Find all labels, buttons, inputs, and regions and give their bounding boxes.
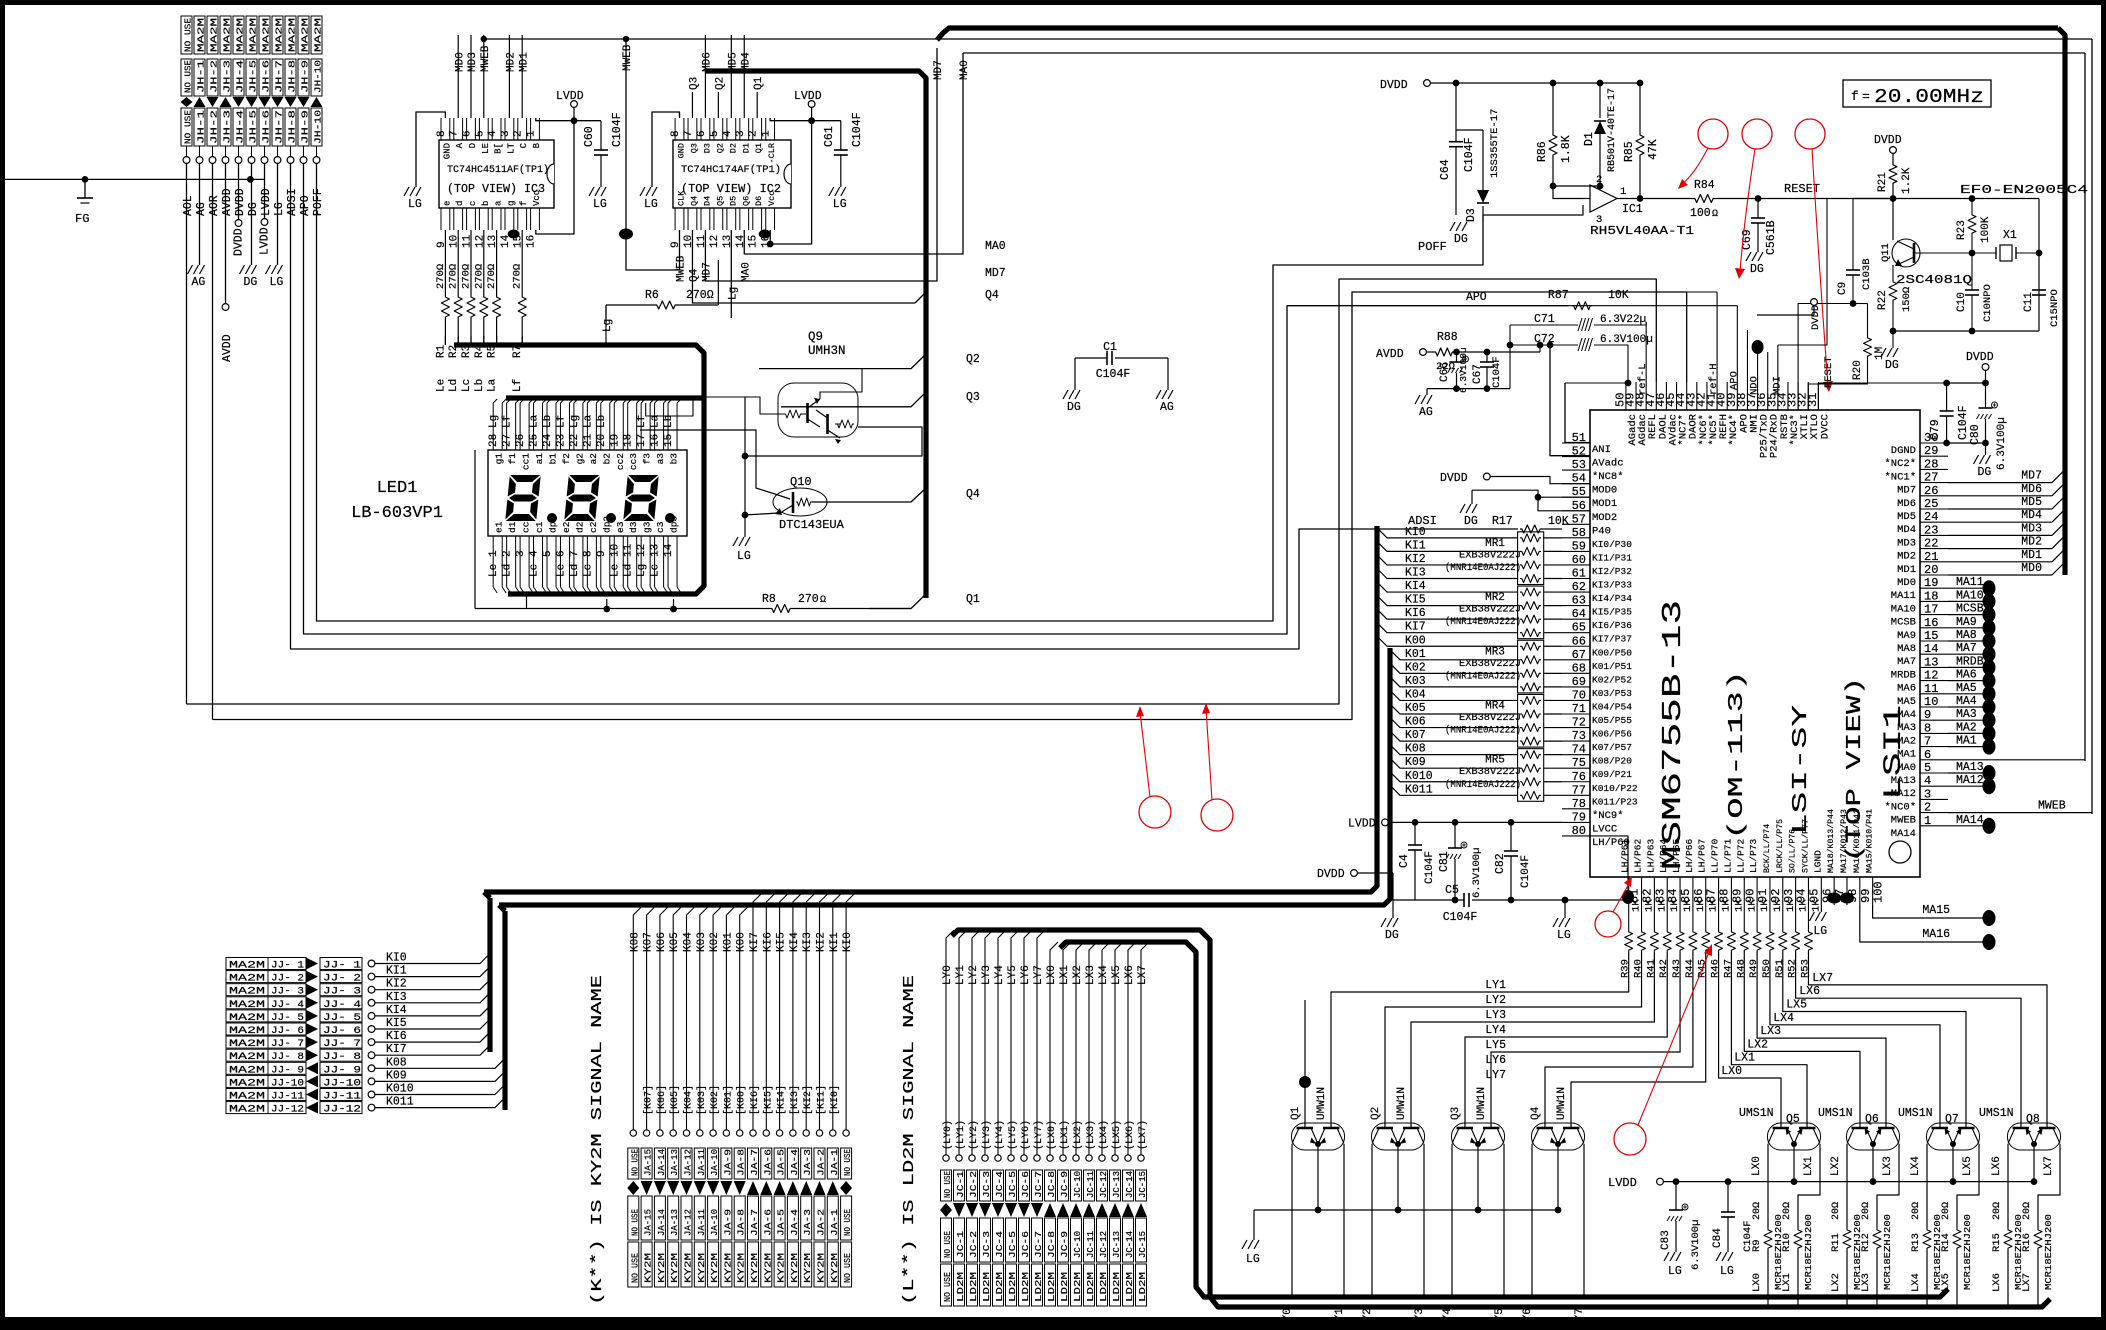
svg-text:LD2M: LD2M	[1125, 1272, 1135, 1302]
wire DG	[251, 163, 253, 265]
ground LG (pin96)	[1820, 905, 1822, 912]
svg-text:MD7: MD7	[2021, 470, 2042, 483]
svg-text:MD0: MD0	[454, 52, 466, 72]
svg-text:LX7: LX7	[1812, 972, 1833, 985]
svg-text:DVDD: DVDD	[1440, 472, 1468, 485]
svg-text:K02/P52: K02/P52	[1592, 674, 1632, 685]
wire MA2	[1948, 732, 1984, 734]
svg-text:JH-5: JH-5	[248, 60, 259, 93]
LSI1 pin 79 (LVCC)	[1562, 821, 1590, 823]
svg-text:JC-3: JC-3	[982, 1171, 992, 1198]
svg-text:SO/LL/P76: SO/LL/P76	[1788, 829, 1798, 873]
svg-text:Q7: Q7	[1945, 1113, 1959, 1126]
svg-text:LY6: LY6	[1485, 1054, 1506, 1067]
svg-text:C61: C61	[823, 126, 836, 147]
wire cc line left	[474, 450, 476, 609]
svg-text:28: 28	[1924, 457, 1938, 471]
svg-text:12: 12	[1924, 669, 1938, 683]
svg-text:R40: R40	[1633, 959, 1645, 978]
IC3 pin 1 (B)	[530, 118, 532, 140]
svg-text:270Ω: 270Ω	[486, 264, 498, 289]
svg-text:Lb: Lb	[542, 415, 554, 428]
svg-text:Lg: Lg	[636, 564, 648, 577]
wire Q4 emitter	[1557, 1144, 1559, 1210]
svg-text:LH/P61: LH/P61	[1620, 838, 1631, 873]
LSI1 pin 16 (MA9)	[1920, 627, 1948, 629]
svg-text:LVDD: LVDD	[1348, 817, 1376, 830]
wire XTLO net	[1808, 358, 1867, 410]
svg-text:JC-6: JC-6	[1021, 1171, 1031, 1198]
svg-text:6: 6	[462, 130, 474, 137]
resistor R7 270ohm (Lf)	[521, 230, 523, 295]
svg-text:JC-12: JC-12	[1099, 1231, 1109, 1258]
ground LG (Q emitters)	[1242, 1240, 1247, 1249]
svg-text:MOD2: MOD2	[1592, 512, 1617, 524]
svg-text:LG: LG	[644, 198, 658, 211]
svg-text:MRDB: MRDB	[1956, 655, 1984, 668]
wire osc right vertical	[2038, 199, 2040, 332]
svg-text:LY0: LY0	[942, 965, 954, 985]
svg-text:1K: 1K	[1772, 899, 1784, 912]
svg-text:KI0/P30: KI0/P30	[1592, 539, 1632, 550]
capacitor C11 C15NPO	[2032, 289, 2046, 291]
wire MD2 (IC3 top)	[508, 35, 510, 118]
svg-text:KY2M: KY2M	[710, 1253, 720, 1283]
wire MA16	[1860, 905, 1984, 942]
wire LVDD	[264, 163, 266, 218]
wire K05 row	[1390, 704, 1518, 714]
svg-text:d3: d3	[628, 521, 639, 533]
svg-text:MA5: MA5	[1956, 682, 1977, 695]
svg-text:KI2: KI2	[386, 978, 407, 991]
svg-text:12: 12	[709, 235, 721, 248]
svg-text:K01/P51: K01/P51	[1592, 661, 1632, 672]
resistor network MR3 EXB38V222J	[1518, 640, 1544, 693]
IC2 pin 6 (D3)	[700, 118, 702, 140]
svg-text:(LY0): (LY0)	[942, 1120, 954, 1150]
svg-text:MD7: MD7	[985, 267, 1006, 280]
wire Q11 base to X1	[1914, 252, 1996, 254]
svg-text:K01: K01	[1405, 648, 1426, 661]
connector pin JH-5	[246, 16, 257, 54]
svg-text:DG: DG	[1750, 263, 1764, 276]
svg-text:LED1: LED1	[377, 479, 418, 498]
svg-text:MA2M: MA2M	[235, 18, 246, 52]
svg-text:Q3: Q3	[689, 143, 699, 153]
transistor Q1 UMW1N	[1292, 1123, 1345, 1150]
svg-text:KY2M: KY2M	[763, 1253, 773, 1283]
transistor Q10 DTC143EUA	[773, 488, 827, 516]
svg-text:1K: 1K	[1644, 899, 1656, 912]
svg-text:KY2M: KY2M	[657, 1253, 667, 1283]
svg-text:LX2: LX2	[1830, 1156, 1842, 1176]
LED pin 4 (c1)	[533, 536, 535, 587]
svg-text:-CLR: -CLR	[767, 143, 777, 163]
wire MD7 top to MD bus	[481, 36, 487, 42]
svg-text:8: 8	[582, 550, 594, 557]
svg-text:23: 23	[1924, 523, 1938, 537]
LSI1 pin 23 (MD3)	[1920, 534, 1948, 536]
svg-text:MA13: MA13	[1956, 761, 1984, 774]
svg-text:Q6: Q6	[741, 196, 751, 206]
ground DG (R22)	[1892, 331, 1894, 348]
svg-text:1: 1	[761, 130, 773, 137]
wire MA12	[1948, 785, 1984, 787]
svg-text:4: 4	[1924, 774, 1931, 788]
LSI1 pin 31 (DVCC)	[1817, 382, 1819, 410]
svg-text:MA4: MA4	[1956, 695, 1977, 708]
LSI1 pin 88 (LL/P70)	[1718, 877, 1720, 905]
svg-text:JA-15: JA-15	[644, 1209, 654, 1236]
svg-text:(LX5): (LX5)	[1111, 1120, 1123, 1150]
svg-text:K08: K08	[386, 1056, 407, 1069]
svg-text:*NC8*: *NC8*	[1592, 471, 1624, 483]
svg-text:LX1: LX1	[1781, 1273, 1793, 1292]
svg-text:UMS1N: UMS1N	[1898, 1107, 1933, 1120]
LED pin 13 (c3)	[654, 536, 656, 587]
connector LD2M col JC-9	[1063, 942, 1071, 1158]
svg-text:14: 14	[735, 234, 747, 248]
connector LD2M col JC-10	[1076, 942, 1084, 1158]
svg-text:JA-11: JA-11	[697, 1209, 707, 1236]
wire Q10 base from LED	[640, 430, 778, 495]
svg-text:R17: R17	[1492, 515, 1513, 528]
svg-text:MA18/K013/P44: MA18/K013/P44	[1826, 809, 1836, 873]
svg-text:K00: K00	[736, 932, 748, 952]
svg-text:LG: LG	[737, 550, 751, 563]
svg-text:JA-14: JA-14	[657, 1209, 667, 1236]
svg-text:JC-2: JC-2	[969, 1231, 979, 1258]
svg-text:20Ω: 20Ω	[1861, 1202, 1872, 1220]
wire Q6 emitter	[1872, 1144, 1874, 1182]
svg-text:R20: R20	[1852, 360, 1864, 380]
svg-text:JA-3: JA-3	[803, 1209, 813, 1236]
LED pin 12 (g3)	[640, 536, 642, 587]
wire LY0 drop	[1291, 1144, 1293, 1297]
svg-text:20Ω: 20Ω	[2022, 1202, 2033, 1220]
svg-text:KI2: KI2	[1405, 553, 1426, 566]
wire LX7 to R16	[2038, 1144, 2060, 1228]
bus Q3 tap	[781, 392, 926, 407]
connector LD2M col JC-6	[1024, 930, 1032, 1158]
svg-text:LD2M: LD2M	[969, 1272, 979, 1302]
svg-text:[KI4]: [KI4]	[776, 1085, 788, 1115]
svg-text:10K: 10K	[1608, 289, 1629, 302]
svg-text:Vcc: Vcc	[767, 191, 777, 206]
wire DVDD	[238, 163, 240, 219]
svg-text:Ω: Ω	[1712, 209, 1718, 220]
wire DGND pin30	[1948, 442, 1986, 444]
IC3 pin 6 (D)	[466, 118, 468, 140]
svg-text:R12: R12	[1860, 1233, 1872, 1252]
svg-text:LH/P66: LH/P66	[1684, 838, 1695, 873]
svg-text:LD2M: LD2M	[1060, 1272, 1070, 1302]
LSI1 pin 20 (MD0)	[1920, 574, 1948, 576]
LSI1 pin 64 (KI6/P36)	[1562, 618, 1590, 620]
svg-text:KI7: KI7	[386, 1043, 407, 1056]
LSI1 pin 14 (MA7)	[1920, 653, 1948, 655]
svg-text:b: b	[481, 201, 491, 206]
svg-text:Q4: Q4	[1530, 1106, 1542, 1120]
wire LY4	[1465, 952, 1667, 1097]
svg-text:Lb: Lb	[474, 379, 486, 392]
connector LD2M col JC-2	[972, 930, 980, 1158]
svg-text:D: D	[468, 143, 478, 148]
svg-text:R21: R21	[1877, 172, 1889, 192]
svg-text:MA2M: MA2M	[229, 1052, 265, 1063]
svg-text:15: 15	[1924, 629, 1938, 643]
svg-text:K05: K05	[1405, 702, 1426, 715]
svg-text:KI1: KI1	[829, 932, 841, 952]
wire IC2 CLR to LVDD	[770, 118, 841, 121]
svg-text:UMW1N: UMW1N	[1556, 1087, 1568, 1120]
LED pin 25 (a1)	[533, 403, 535, 450]
wire MRDB	[1948, 666, 1984, 668]
svg-text:MA2: MA2	[1956, 721, 1977, 734]
junction	[508, 230, 520, 239]
svg-text:MA12: MA12	[1891, 788, 1916, 800]
svg-text:JC-8: JC-8	[1047, 1231, 1057, 1258]
svg-text:LX1: LX1	[1734, 1052, 1755, 1065]
svg-text:ADSI: ADSI	[286, 188, 299, 216]
LSI1 pin 80 (LH/P60)	[1562, 835, 1590, 837]
connector LD2M col NO USE	[946, 930, 954, 1158]
svg-text:UMW1N: UMW1N	[1396, 1087, 1408, 1120]
svg-text:R13: R13	[1910, 1233, 1922, 1252]
LSI1 pin 61 (KI3/P33)	[1562, 578, 1590, 580]
svg-text:12: 12	[474, 235, 486, 248]
svg-text:LY4: LY4	[1442, 1308, 1454, 1328]
capacitor C67 C104F	[1484, 349, 1491, 356]
LSI1 pin 87 (LH/P67)	[1705, 877, 1707, 905]
svg-text:10: 10	[449, 235, 461, 248]
svg-text:DVDD: DVDD	[234, 188, 247, 216]
wire LX0 to R9	[1767, 1144, 1769, 1228]
svg-text:KY2M: KY2M	[830, 1253, 840, 1283]
LSI1 pin 57 (P40)	[1562, 523, 1590, 525]
svg-text:5: 5	[474, 130, 486, 137]
svg-text:LX5: LX5	[1940, 1273, 1952, 1292]
svg-text:LX5: LX5	[1962, 1156, 1974, 1176]
svg-text:LG: LG	[1813, 925, 1827, 938]
svg-text:Lg: Lg	[569, 415, 581, 428]
svg-text:UMH3N: UMH3N	[808, 344, 846, 358]
wire LX6	[1796, 952, 2021, 1112]
LSI1 pin 35 (RSTB)	[1777, 382, 1779, 410]
svg-text:JC-7: JC-7	[1034, 1231, 1044, 1258]
svg-text:K05: K05	[669, 932, 681, 952]
LED pin 8 (c2)	[586, 536, 588, 587]
svg-text:15: 15	[663, 434, 675, 447]
connector LD2M col JC-3	[985, 930, 993, 1158]
svg-text:JJ- 4: JJ- 4	[323, 1000, 361, 1011]
wire Ld to bus	[457, 341, 459, 345]
svg-text:MD7: MD7	[933, 60, 945, 80]
wire K00 row	[1377, 636, 1518, 646]
ground DG (C80)	[1974, 455, 1979, 464]
connector KY2M col JA-11	[700, 905, 710, 1133]
svg-text:C561B: C561B	[1765, 220, 1778, 255]
svg-text:LX6: LX6	[1124, 965, 1136, 985]
svg-text:K06: K06	[656, 932, 668, 952]
svg-text:MA2M: MA2M	[229, 1013, 265, 1024]
svg-text:22: 22	[1924, 537, 1938, 551]
wire La to bus	[496, 341, 498, 345]
svg-text:K04: K04	[683, 932, 695, 952]
svg-text:1M: 1M	[1874, 347, 1886, 360]
svg-text:LD2M: LD2M	[1099, 1272, 1109, 1302]
svg-text:75: 75	[1572, 756, 1586, 770]
LSI1 pin 48 (REFL)	[1645, 382, 1647, 410]
LED pin 10 (e3)	[613, 536, 615, 587]
wire LX2 to R11	[1846, 1144, 1848, 1228]
svg-text:R16: R16	[2021, 1233, 2033, 1252]
wire Q1 emitter	[1317, 1144, 1319, 1210]
bus (thick) IC2 area	[705, 71, 926, 598]
bus KO (thick)	[502, 911, 507, 1110]
svg-text:f: f	[519, 201, 529, 206]
LSI1 pin 92 (BCK/LL/P74)	[1769, 877, 1771, 905]
svg-text:MA2M: MA2M	[196, 18, 207, 52]
svg-text:JJ- 3: JJ- 3	[323, 987, 361, 998]
svg-text:K011/P23: K011/P23	[1592, 796, 1638, 807]
svg-text:MDI: MDI	[1772, 376, 1784, 395]
LSI1 pin 63 (KI5/P35)	[1562, 605, 1590, 607]
svg-text:9: 9	[596, 550, 608, 557]
wire MA1	[1948, 746, 1984, 748]
svg-text:LX6: LX6	[1799, 985, 1820, 998]
bus MD7-MD0 to right	[1948, 482, 2052, 484]
svg-text:JH-6: JH-6	[261, 60, 272, 93]
LSI1 pin 46 (AVdac)	[1665, 382, 1667, 410]
svg-text:AOL: AOL	[182, 195, 195, 216]
svg-text:[KI6]: [KI6]	[749, 1085, 761, 1115]
wire AVDD R88 rail	[1420, 349, 1427, 356]
svg-text:LY4: LY4	[1485, 1024, 1506, 1037]
svg-text:R44: R44	[1684, 959, 1696, 978]
svg-text:GND: GND	[677, 143, 687, 158]
junction	[82, 176, 89, 183]
svg-text:KI4: KI4	[1405, 580, 1426, 593]
ground LG (IC2)	[640, 187, 645, 196]
svg-text:C9: C9	[1837, 282, 1849, 295]
connector KY2M col JA-7	[753, 892, 763, 1133]
LSI1 pin 47 (DAOL)	[1655, 382, 1657, 410]
LSI1 pin 70 (K04/P54)	[1562, 699, 1590, 701]
svg-text:LX2: LX2	[1830, 1273, 1842, 1292]
svg-text:270Ω: 270Ω	[686, 289, 714, 302]
svg-text:LY6: LY6	[1522, 1308, 1534, 1328]
svg-text:AG: AG	[1160, 401, 1174, 414]
ground LG (C83)	[1664, 1252, 1669, 1261]
svg-text:LB-603VP1: LB-603VP1	[351, 504, 443, 523]
svg-text:JC-6: JC-6	[1021, 1231, 1031, 1258]
svg-text:c2: c2	[588, 521, 599, 533]
svg-text:K07: K07	[643, 932, 655, 952]
svg-text:JJ- 5: JJ- 5	[323, 1013, 361, 1024]
wire KI5 row	[1377, 596, 1518, 606]
LSI1 pin 86 (LH/P66)	[1692, 877, 1694, 905]
wire Lc to bus	[470, 341, 472, 345]
svg-text:R23: R23	[1956, 220, 1968, 240]
wire Q3 (IC2)	[691, 92, 693, 118]
svg-text:MD6: MD6	[2021, 483, 2042, 496]
svg-text:R49: R49	[1748, 959, 1760, 978]
svg-text:69: 69	[1572, 675, 1586, 689]
svg-text:(LY1): (LY1)	[955, 1120, 967, 1150]
svg-text:[KI0]: [KI0]	[829, 1085, 841, 1115]
svg-text:LX3: LX3	[1760, 1025, 1781, 1038]
svg-text:9: 9	[1924, 708, 1931, 722]
svg-text:1K: 1K	[1669, 899, 1681, 912]
svg-text:Q2: Q2	[966, 353, 980, 366]
connector KY2M col JA-3	[806, 892, 816, 1133]
svg-text:MD4: MD4	[1897, 524, 1916, 536]
svg-text:MD1: MD1	[2021, 549, 2042, 562]
svg-text:JH-4: JH-4	[235, 60, 246, 93]
IC3 pin 9 (e)	[440, 208, 442, 230]
capacitor C60 C104F	[600, 121, 602, 150]
svg-text:R50: R50	[1761, 959, 1773, 978]
svg-text:MD1: MD1	[518, 52, 530, 72]
LED pin 19 (cc2)	[613, 403, 615, 450]
wire XTLI net	[1798, 304, 1853, 411]
svg-text:10K: 10K	[1548, 515, 1569, 528]
wire MA7	[1948, 653, 1984, 655]
LSI1 pin 3 (*NC0*)	[1920, 798, 1948, 800]
svg-text:UMW1N: UMW1N	[1476, 1087, 1488, 1120]
LSI1 pin 60 (KI2/P32)	[1562, 564, 1590, 566]
svg-text:8: 8	[436, 130, 448, 137]
svg-text:La: La	[487, 378, 499, 392]
svg-text:JC-4: JC-4	[995, 1231, 1005, 1258]
svg-text:C10NPO: C10NPO	[1982, 284, 1994, 322]
capacitor C61 C104F	[840, 121, 842, 150]
svg-text:6.3V100µ: 6.3V100µ	[1600, 334, 1653, 346]
svg-text:74: 74	[1572, 743, 1586, 757]
svg-text:LY5: LY5	[1007, 965, 1019, 985]
LED pin 24 (b1)	[546, 403, 548, 450]
wire K011 row	[1390, 785, 1518, 795]
svg-text:K07/P57: K07/P57	[1592, 742, 1632, 753]
svg-text:LX2: LX2	[1747, 1038, 1768, 1051]
wire KI6 row	[1377, 609, 1518, 619]
wire LY7	[1571, 952, 1706, 1097]
LED pin 15 (b3)	[667, 403, 669, 450]
svg-text:DG: DG	[1067, 401, 1081, 414]
svg-text:JA-2: JA-2	[817, 1209, 827, 1236]
svg-text:(LY4): (LY4)	[994, 1120, 1006, 1150]
svg-text:[KI3]: [KI3]	[789, 1085, 801, 1115]
svg-text:3: 3	[515, 550, 527, 557]
svg-text:C104F: C104F	[1463, 137, 1476, 172]
svg-text:52: 52	[1572, 445, 1586, 459]
svg-text:JH-10: JH-10	[313, 60, 324, 93]
svg-text:LL/P72: LL/P72	[1735, 838, 1746, 873]
svg-text:[K05]: [K05]	[669, 1085, 681, 1115]
svg-text:JJ- 1: JJ- 1	[271, 961, 304, 972]
IC3 pin 15 (f)	[517, 208, 519, 230]
svg-text:LG: LG	[1720, 1265, 1734, 1278]
wire MA0 top rail	[963, 52, 2085, 54]
LSI1 pin 69 (K03/P53)	[1562, 686, 1590, 688]
svg-text:KY2M: KY2M	[817, 1253, 827, 1283]
svg-text:64: 64	[1572, 607, 1586, 621]
svg-text:2: 2	[502, 550, 514, 557]
svg-text:MOD0: MOD0	[1592, 485, 1617, 497]
svg-text:JC-15: JC-15	[1138, 1171, 1148, 1198]
svg-text:R14: R14	[1940, 1233, 1952, 1252]
